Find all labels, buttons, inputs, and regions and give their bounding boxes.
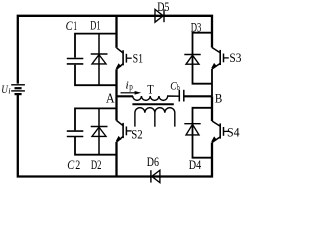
svg-text:S1: S1 <box>133 51 143 65</box>
svg-text:C: C <box>67 158 75 172</box>
svg-text:D6: D6 <box>147 155 159 169</box>
wire: center leg bottom (S2 emitter to bottom rail) <box>115 142 117 177</box>
wire: D2 branch <box>98 108 100 154</box>
wire: right rail between node B and S4 <box>211 96 213 121</box>
svg-text:i: i <box>125 80 128 92</box>
svg-text:A: A <box>106 91 115 106</box>
svg-text:p: p <box>129 82 133 92</box>
wire: left rail bottom + bottom rail + right rail lower (from S4 emitter) <box>18 95 212 177</box>
battery Ui <box>11 84 25 86</box>
wire: D1 branch <box>98 34 100 86</box>
capacitor C2 <box>67 130 84 132</box>
transformer T primary winding <box>133 96 180 100</box>
wire: center leg middle (S1 emitter through node A to S2 collector) <box>115 69 117 120</box>
transformer T core bar <box>132 103 173 105</box>
svg-text:S2: S2 <box>131 128 142 142</box>
wire: left rail top + top rail + right rail upper (to S3 collector) <box>18 16 212 84</box>
svg-text:D3: D3 <box>191 21 202 35</box>
svg-text:S3: S3 <box>229 51 241 65</box>
transistor S3 <box>212 48 220 70</box>
current arrow ip <box>121 92 137 94</box>
diode D6 (in bottom rail) <box>150 170 152 182</box>
svg-text:2: 2 <box>75 158 80 172</box>
svg-text:S4: S4 <box>227 126 240 140</box>
capacitor C1 <box>67 58 84 60</box>
wire: node A stub <box>117 95 134 97</box>
transistor S2 <box>117 121 124 143</box>
transistor S1 <box>117 48 124 70</box>
transistor S4 <box>212 121 220 143</box>
svg-text:b: b <box>177 82 180 92</box>
wire: right rail middle segment (S3 emitter to S4 collector) <box>211 69 213 96</box>
svg-text:T: T <box>147 83 154 97</box>
transformer T secondary winding <box>135 108 175 127</box>
wire: Cb to node B <box>184 95 212 97</box>
diode D1 <box>91 53 108 55</box>
wire: lower-left clamp box (C2/D2 parallel branch) <box>75 108 117 154</box>
wire: upper-left clamp box (C1/D1 parallel branch) <box>75 34 117 86</box>
svg-text:D2: D2 <box>91 158 102 172</box>
diode D3 <box>184 54 200 56</box>
svg-text:C: C <box>66 19 74 33</box>
diode D5 (in top rail) <box>155 9 163 22</box>
wire: center leg top (top rail to S1 collector) <box>115 16 117 48</box>
svg-text:1: 1 <box>73 19 77 33</box>
svg-text:B: B <box>215 90 223 105</box>
capacitor Cb <box>178 90 180 102</box>
diode D4 <box>184 123 200 125</box>
svg-text:D5: D5 <box>157 0 169 14</box>
wire: lower-right branch (D4 parallel with S4) <box>193 108 213 158</box>
wire: upper-right branch (D3 parallel with S3) <box>193 33 213 84</box>
svg-text:D4: D4 <box>189 158 202 172</box>
svg-text:D1: D1 <box>90 19 100 33</box>
diode D2 <box>91 126 108 128</box>
